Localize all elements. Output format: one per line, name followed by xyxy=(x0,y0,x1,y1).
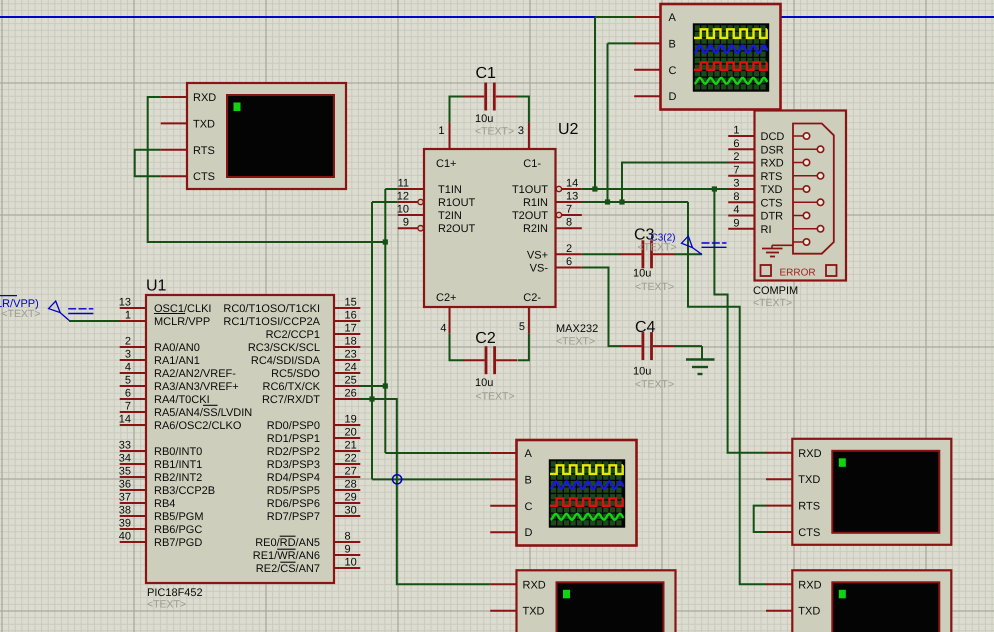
pin 38 RB5/PGM of U1 xyxy=(119,505,204,524)
svg-text:RD6/PSP6: RD6/PSP6 xyxy=(267,498,320,510)
svg-text:ERROR: ERROR xyxy=(780,267,816,278)
svg-text:1: 1 xyxy=(125,310,131,322)
svg-text:14: 14 xyxy=(119,414,131,426)
waveform A yellow xyxy=(694,29,767,38)
pin 13 OSC1/CLKI of U1 xyxy=(119,297,212,316)
svg-text:R2OUT: R2OUT xyxy=(438,223,476,235)
svg-text:21: 21 xyxy=(345,440,357,452)
svg-text:5: 5 xyxy=(125,375,131,387)
pin 1 C1+ of U2 xyxy=(436,123,457,170)
svg-text:RA4/T0CKI: RA4/T0CKI xyxy=(154,394,210,406)
svg-text:RC7/RX/DT: RC7/RX/DT xyxy=(262,394,320,406)
svg-text:RB3/CCP2B: RB3/CCP2B xyxy=(154,485,215,497)
pin 4 RA2/AN2/VREF- of U1 xyxy=(120,362,237,381)
pin 8 RE0/RD/AN5 of U1 xyxy=(255,531,360,550)
virtual terminal VT4 (right bottom) xyxy=(792,570,951,632)
svg-text:33: 33 xyxy=(119,440,131,452)
svg-text:RTS: RTS xyxy=(761,171,783,183)
pin 8 R2IN of U2 xyxy=(523,217,582,236)
svg-text:<TEXT>: <TEXT> xyxy=(635,281,674,293)
svg-text:TXD: TXD xyxy=(798,474,820,486)
pin 35 RB2/INT2 of U1 xyxy=(119,466,203,485)
pin 2 RXD of COMPIM xyxy=(728,151,784,170)
svg-text:C2-: C2- xyxy=(523,292,541,304)
wire: blue net right segment xyxy=(781,16,994,18)
svg-text:RB7/PGD: RB7/PGD xyxy=(154,537,202,549)
pin 7 RTS of COMPIM xyxy=(728,164,782,183)
waveform D green xyxy=(551,514,624,520)
svg-text:23: 23 xyxy=(345,349,357,361)
pin 2 RA0/AN0 of U1 xyxy=(120,336,200,355)
svg-text:RC4/SDI/SDA: RC4/SDI/SDA xyxy=(251,355,321,367)
svg-text:T2IN: T2IN xyxy=(438,210,462,222)
svg-text:4: 4 xyxy=(440,323,446,335)
svg-text:<TEXT>: <TEXT> xyxy=(475,126,514,138)
pin 9 RE1/WR/AN6 of U1 xyxy=(253,544,361,563)
svg-text:10: 10 xyxy=(397,204,409,216)
svg-text:10u: 10u xyxy=(633,366,651,378)
oscilloscope OSC2 (bottom) xyxy=(517,440,637,546)
pin 7 T2OUT of U2 xyxy=(512,204,582,223)
wire: blue net left segment xyxy=(0,16,595,18)
svg-text:17: 17 xyxy=(345,323,357,335)
svg-text:6: 6 xyxy=(125,388,131,400)
svg-text:DCD: DCD xyxy=(761,131,785,143)
pin 19 RD0/PSP0 of U1 xyxy=(267,414,361,433)
svg-text:TXD: TXD xyxy=(193,118,215,130)
capacitor C2 xyxy=(463,346,517,374)
svg-text:B: B xyxy=(525,474,532,486)
pin 5 RA3/AN3/VREF+ of U1 xyxy=(120,375,239,394)
svg-text:C4: C4 xyxy=(635,319,656,336)
pin RXD of VT4 (right bottom) xyxy=(766,579,822,591)
wire: R1IN branch down xyxy=(688,202,767,584)
svg-text:B: B xyxy=(669,38,676,50)
pin 3 TXD of COMPIM xyxy=(728,178,782,197)
pin 37 RB4 of U1 xyxy=(119,492,176,511)
svg-text:8: 8 xyxy=(733,191,739,203)
overline CS (RE2) xyxy=(280,561,295,563)
svg-text:TXD: TXD xyxy=(761,184,783,196)
svg-text:RB2/INT2: RB2/INT2 xyxy=(154,472,202,484)
pin 13 R1IN of U2 xyxy=(523,191,582,210)
wire: C4 right to ground xyxy=(674,345,702,347)
pin 1 MCLR/VPP of U1 xyxy=(120,310,211,329)
svg-text:10u: 10u xyxy=(475,377,493,389)
svg-text:35: 35 xyxy=(119,466,131,478)
junction TXD branch xyxy=(712,186,717,191)
pin 5 C2- of U2 xyxy=(519,292,541,334)
wire: R1IN horizontal xyxy=(580,201,688,203)
pin 24 RC5/SDO of U1 xyxy=(271,362,360,381)
pin 2 VS+ of U2 xyxy=(527,243,582,261)
wire: MCLR to probe xyxy=(69,320,121,322)
wire: R1OUT net vertical (RX) xyxy=(372,201,398,203)
svg-text:RE1/WR/AN6: RE1/WR/AN6 xyxy=(253,550,320,562)
svg-text:<TEXT>: <TEXT> xyxy=(147,599,186,611)
pin 4 C2+ of U2 xyxy=(436,292,457,335)
svg-text:7: 7 xyxy=(566,204,572,216)
pin B of OSC1 (top) xyxy=(634,38,676,50)
svg-text:6: 6 xyxy=(733,138,739,150)
svg-text:R1IN: R1IN xyxy=(523,197,548,209)
svg-text:13: 13 xyxy=(566,191,578,203)
waveform A yellow xyxy=(550,465,623,474)
virtual terminal VT2 (bottom centre) xyxy=(517,570,676,632)
svg-text:9: 9 xyxy=(733,217,739,229)
svg-text:TXD: TXD xyxy=(523,606,545,618)
svg-text:24: 24 xyxy=(345,362,357,374)
wire: vertical blue-junction to TXD net xyxy=(594,17,596,189)
svg-text:RB6/PGC: RB6/PGC xyxy=(154,524,202,536)
pin 20 RD1/PSP1 of U1 xyxy=(267,427,361,446)
svg-text:DSR: DSR xyxy=(761,144,784,156)
pin 9 R2OUT of U2 xyxy=(398,217,476,236)
wire: VT1 RTS-CTS loopback xyxy=(135,150,161,176)
svg-text:10u: 10u xyxy=(475,113,493,125)
svg-text:CTS: CTS xyxy=(761,197,783,209)
svg-text:37: 37 xyxy=(119,492,131,504)
pin 27 RD4/PSP4 of U1 xyxy=(267,466,361,485)
pin 6 VS- of U2 xyxy=(530,256,582,275)
svg-text:4: 4 xyxy=(733,204,739,216)
pin 16 RC1/T1OSI/CCP2A of U1 xyxy=(223,310,360,329)
svg-text:39: 39 xyxy=(119,518,131,530)
pin C of OSC1 (top) xyxy=(634,65,676,77)
svg-text:RD3/PSP3: RD3/PSP3 xyxy=(267,459,320,471)
svg-text:RTS: RTS xyxy=(193,145,215,157)
svg-text:1: 1 xyxy=(733,125,739,137)
pin 28 RD5/PSP5 of U1 xyxy=(267,479,361,498)
svg-text:A: A xyxy=(525,448,533,460)
svg-text:<TEXT>: <TEXT> xyxy=(476,391,515,403)
wire: terminal3 RTS-CTS loopback xyxy=(754,506,767,532)
svg-text:<TEXT>: <TEXT> xyxy=(635,379,674,391)
svg-text:RE0/RD/AN5: RE0/RD/AN5 xyxy=(255,537,320,549)
pin 33 RB0/INT0 of U1 xyxy=(119,440,203,459)
svg-text:15: 15 xyxy=(345,297,357,309)
svg-text:1: 1 xyxy=(438,125,444,137)
svg-text:RI: RI xyxy=(761,224,772,236)
wire: COMPIM RXD to R1IN net xyxy=(622,163,729,203)
svg-text:8: 8 xyxy=(345,531,351,543)
junction scopeB/R1IN xyxy=(605,199,610,204)
svg-text:<TEXT>: <TEXT> xyxy=(638,242,677,254)
waveform D green xyxy=(695,78,768,84)
pin 6 RA4/T0CKI of U1 xyxy=(120,388,210,407)
svg-text:C1+: C1+ xyxy=(436,158,457,170)
pin TXD of VT3 (right top) xyxy=(766,474,820,486)
pin 12 R1OUT of U2 xyxy=(397,191,476,210)
svg-text:10u: 10u xyxy=(633,268,651,280)
svg-text:2: 2 xyxy=(125,336,131,348)
COMPIM internal ground xyxy=(762,245,793,256)
junction VT1 tap xyxy=(383,239,388,244)
svg-text:RD0/PSP0: RD0/PSP0 xyxy=(267,420,320,432)
svg-text:PIC18F452: PIC18F452 xyxy=(147,587,203,599)
waveform C red xyxy=(550,498,623,505)
svg-text:RB5/PGM: RB5/PGM xyxy=(154,511,204,523)
svg-text:R2IN: R2IN xyxy=(523,223,548,235)
pin 4 DTR of COMPIM xyxy=(728,204,783,223)
overline RD (RE0) xyxy=(280,535,296,537)
svg-text:A: A xyxy=(669,12,677,24)
svg-text:29: 29 xyxy=(345,492,357,504)
svg-text:C: C xyxy=(525,501,533,513)
junction scopeA/TXD xyxy=(592,186,597,191)
pin 11 T1IN of U2 xyxy=(398,178,462,197)
svg-text:R1OUT: R1OUT xyxy=(438,197,476,209)
junction RC6 tap xyxy=(383,383,388,388)
svg-text:DTR: DTR xyxy=(761,211,784,223)
pin 9 RI of COMPIM xyxy=(728,217,771,236)
svg-text:2: 2 xyxy=(566,243,572,255)
overline MCLR xyxy=(154,313,185,315)
capacitor C4 xyxy=(620,332,674,360)
svg-text:40: 40 xyxy=(119,531,131,543)
svg-text:RTS: RTS xyxy=(798,501,820,513)
svg-text:T2OUT: T2OUT xyxy=(512,210,548,222)
svg-text:RB4: RB4 xyxy=(154,498,175,510)
svg-text:C1: C1 xyxy=(476,65,497,82)
pin 23 RC4/SDI/SDA of U1 xyxy=(251,349,360,368)
pin 22 RD3/PSP3 of U1 xyxy=(267,453,361,472)
pin 26 RC7/RX/DT of U1 xyxy=(262,388,360,407)
wire: C1 right lead elbow xyxy=(516,97,529,123)
COMPIM error indicators xyxy=(761,265,837,278)
pin 6 DSR of COMPIM xyxy=(728,138,784,157)
svg-text:CTS: CTS xyxy=(798,527,820,539)
overline WR (RE1) xyxy=(277,548,295,550)
IC U2 MAX232 xyxy=(424,149,556,307)
wire: T1IN net vertical (TX) xyxy=(385,188,397,190)
svg-text:C2: C2 xyxy=(475,330,496,347)
svg-text:<TEXT>: <TEXT> xyxy=(556,336,595,348)
pin 15 RC0/T1OSO/T1CKI of U1 xyxy=(223,297,360,316)
svg-text:RC5/SDO: RC5/SDO xyxy=(271,368,320,380)
svg-text:RB0/INT0: RB0/INT0 xyxy=(154,446,202,458)
svg-text:34: 34 xyxy=(119,453,131,465)
capacitor C3 xyxy=(620,240,674,268)
svg-text:18: 18 xyxy=(345,336,357,348)
pin 10 RE2/CS/AN7 of U1 xyxy=(256,557,361,576)
wire: C3 right to probe xyxy=(674,253,702,255)
pin RTS of VT3 (right top) xyxy=(766,501,820,513)
wire: scope1 B input xyxy=(608,42,637,44)
COMPIM DB9 shell xyxy=(793,124,834,254)
svg-text:3: 3 xyxy=(125,349,131,361)
svg-text:RA0/AN0: RA0/AN0 xyxy=(154,342,200,354)
junction RXD/R1IN xyxy=(619,199,624,204)
oscilloscope OSC1 (top) xyxy=(661,4,781,110)
wire: RC6/TX to T1IN net xyxy=(359,385,385,387)
connector P1 COMPIM xyxy=(755,111,847,281)
wire: vertical scope1 B to R1IN net xyxy=(607,43,609,202)
svg-text:U2: U2 xyxy=(558,121,579,138)
svg-text:RC3/SCK/SCL: RC3/SCK/SCL xyxy=(248,342,320,354)
svg-text:RC1/T1OSI/CCP2A: RC1/T1OSI/CCP2A xyxy=(223,316,320,328)
pin A of OSC2 (bottom) xyxy=(490,448,532,460)
COMPIM DB9 socket circles xyxy=(793,133,824,245)
svg-text:RB1/INT1: RB1/INT1 xyxy=(154,459,202,471)
pin RXD of VT2 (bottom centre) xyxy=(490,579,546,591)
ground symbol at C4 xyxy=(686,346,715,374)
pin 34 RB1/INT1 of U1 xyxy=(119,453,203,472)
pin 25 RC6/TX/CK of U1 xyxy=(263,375,361,394)
svg-text:T1IN: T1IN xyxy=(438,184,462,196)
wire: scope2 A input xyxy=(385,452,490,454)
waveform B blue xyxy=(695,46,768,53)
pin 40 RB7/PGD of U1 xyxy=(119,531,203,550)
pin 3 RA1/AN1 of U1 xyxy=(120,349,200,368)
svg-text:16: 16 xyxy=(345,310,357,322)
svg-text:TXD: TXD xyxy=(798,606,820,618)
svg-text:MAX232: MAX232 xyxy=(556,323,598,335)
pin 8 CTS of COMPIM xyxy=(728,191,782,210)
wire: VS+ to C3 xyxy=(582,253,621,255)
wire: C2 right lead elbow xyxy=(518,334,529,361)
pin 29 RD6/PSP6 of U1 xyxy=(267,492,361,511)
wire: RC7/RX to R1OUT net, down to terminal xyxy=(359,399,490,584)
svg-text:36: 36 xyxy=(119,479,131,491)
svg-text:C1-: C1- xyxy=(523,158,541,170)
wire: scope1 A input xyxy=(595,16,636,18)
pin 14 T1OUT of U2 xyxy=(512,178,582,197)
waveform C red xyxy=(694,62,767,69)
svg-text:8: 8 xyxy=(566,217,572,229)
svg-text:RXD: RXD xyxy=(523,579,546,591)
pin CTS of VT3 (right top) xyxy=(766,527,820,539)
pin 14 RA6/OSC2/CLKO of U1 xyxy=(119,414,242,433)
svg-text:<TEXT>: <TEXT> xyxy=(753,297,792,309)
svg-text:VS-: VS- xyxy=(530,263,549,275)
svg-text:20: 20 xyxy=(345,427,357,439)
svg-text:4: 4 xyxy=(125,362,131,374)
svg-text:RD7/PSP7: RD7/PSP7 xyxy=(267,511,320,523)
svg-text:T1OUT: T1OUT xyxy=(512,184,548,196)
svg-text:10: 10 xyxy=(345,557,357,569)
svg-text:30: 30 xyxy=(345,505,357,517)
pin D of OSC2 (bottom) xyxy=(490,527,532,539)
pin CTS of VT1 xyxy=(161,171,215,183)
pin D of OSC1 (top) xyxy=(634,91,676,103)
junction RC7 tap xyxy=(369,396,374,401)
svg-text:9: 9 xyxy=(345,544,351,556)
svg-text:D: D xyxy=(525,527,533,539)
pin TXD of VT4 (right bottom) xyxy=(766,606,820,618)
svg-text:6: 6 xyxy=(566,256,572,268)
svg-text:RXD: RXD xyxy=(193,92,216,104)
svg-text:11: 11 xyxy=(398,178,409,190)
wire: scope2 B input xyxy=(372,478,490,480)
pin 10 T2IN of U2 xyxy=(397,204,462,223)
pin 39 RB6/PGC of U1 xyxy=(119,518,203,537)
svg-text:14: 14 xyxy=(566,178,578,190)
svg-text:U1: U1 xyxy=(146,278,167,295)
pin 36 RB3/CCP2B of U1 xyxy=(119,479,215,498)
svg-text:RC6/TX/CK: RC6/TX/CK xyxy=(263,381,321,393)
overline SS xyxy=(203,404,218,406)
pin B of OSC2 (bottom) xyxy=(490,474,532,486)
svg-text:RE2/CS/AN7: RE2/CS/AN7 xyxy=(256,563,320,575)
pin A of OSC1 (top) xyxy=(634,12,676,24)
svg-text:22: 22 xyxy=(345,453,357,465)
svg-text:RD2/PSP2: RD2/PSP2 xyxy=(267,446,320,458)
pin TXD of VT1 xyxy=(161,118,215,130)
voltage probe MCLR (LR/VPP) xyxy=(0,296,93,321)
svg-text:RA3/AN3/VREF+: RA3/AN3/VREF+ xyxy=(154,381,239,393)
svg-text:26: 26 xyxy=(345,388,357,400)
pin 18 RC3/SCK/SCL of U1 xyxy=(248,336,360,355)
pin 3 C1- of U2 xyxy=(518,123,541,170)
pin 17 RC2/CCP1 of U1 xyxy=(266,323,361,342)
svg-text:7: 7 xyxy=(125,401,131,413)
svg-text:COMPIM: COMPIM xyxy=(753,285,798,297)
svg-text:RC0/T1OSO/T1CKI: RC0/T1OSO/T1CKI xyxy=(223,303,320,315)
pin RTS of VT1 xyxy=(161,145,215,157)
voltage probe C3(2) xyxy=(638,233,727,255)
svg-text:RA6/OSC2/CLKO: RA6/OSC2/CLKO xyxy=(154,420,242,432)
node marker blue circle xyxy=(393,475,402,484)
svg-text:C: C xyxy=(669,65,677,77)
IC U1 PIC18F452 xyxy=(146,295,334,583)
wire: T1OUT to COMPIM TXD xyxy=(582,188,729,190)
svg-text:19: 19 xyxy=(345,414,357,426)
svg-text:CTS: CTS xyxy=(193,171,215,183)
svg-text:C2+: C2+ xyxy=(436,292,457,304)
svg-text:9: 9 xyxy=(403,217,409,229)
svg-text:7: 7 xyxy=(733,164,739,176)
virtual terminal VT1 xyxy=(187,83,346,189)
svg-text:RA5/AN4/SS/LVDIN: RA5/AN4/SS/LVDIN xyxy=(154,407,252,419)
svg-text:RXD: RXD xyxy=(798,579,821,591)
wire: C2 left lead elbow xyxy=(450,334,464,361)
svg-text:RD5/PSP5: RD5/PSP5 xyxy=(267,485,320,497)
svg-text:RC2/CCP1: RC2/CCP1 xyxy=(266,329,320,341)
svg-text:<TEXT>: <TEXT> xyxy=(2,308,41,320)
svg-text:12: 12 xyxy=(397,191,409,203)
svg-text:13: 13 xyxy=(119,297,131,309)
svg-text:RXD: RXD xyxy=(761,158,784,170)
svg-text:25: 25 xyxy=(345,375,357,387)
svg-text:2: 2 xyxy=(733,151,739,163)
wire: C1 left lead elbow xyxy=(450,97,464,123)
pin 7 RA5/AN4/SS/LVDIN of U1 xyxy=(120,401,253,420)
svg-text:28: 28 xyxy=(345,479,357,491)
svg-text:38: 38 xyxy=(119,505,131,517)
capacitor C1 xyxy=(463,83,517,111)
svg-text:27: 27 xyxy=(345,466,357,478)
svg-text:VS+: VS+ xyxy=(527,249,548,261)
svg-text:D: D xyxy=(669,91,677,103)
svg-text:RA2/AN2/VREF-: RA2/AN2/VREF- xyxy=(154,368,236,380)
svg-text:5: 5 xyxy=(519,321,525,333)
svg-text:3: 3 xyxy=(518,125,524,137)
svg-text:MCLR/VPP: MCLR/VPP xyxy=(154,316,210,328)
pin 1 DCD of COMPIM xyxy=(728,125,784,144)
pin TXD of VT2 (bottom centre) xyxy=(490,606,544,618)
wire: TXD branch down to terminal xyxy=(714,189,766,453)
waveform B blue xyxy=(551,482,624,489)
svg-text:RD1/PSP1: RD1/PSP1 xyxy=(267,433,320,445)
pin 21 RD2/PSP2 of U1 xyxy=(267,440,361,459)
wire: VS- to C4 xyxy=(582,268,621,347)
pin RXD of VT1 xyxy=(161,92,217,104)
svg-text:3: 3 xyxy=(733,178,739,190)
pin C of OSC2 (bottom) xyxy=(490,501,532,513)
pin RXD of VT3 (right top) xyxy=(766,448,822,460)
svg-text:RD4/PSP4: RD4/PSP4 xyxy=(267,472,320,484)
